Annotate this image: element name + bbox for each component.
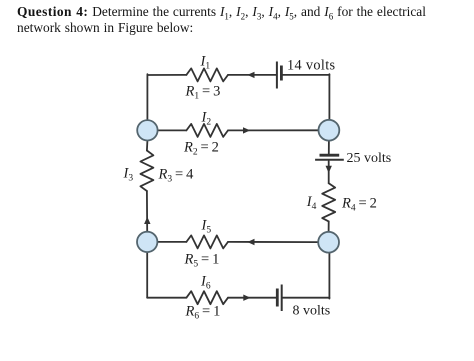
current arrow I1 (left) bbox=[247, 72, 254, 78]
svg-text:R6 = 1: R6 = 1 bbox=[185, 304, 221, 322]
wire left rail top bbox=[146, 74, 148, 120]
svg-text:14 volts: 14 volts bbox=[287, 57, 336, 73]
resistor R5 bbox=[186, 235, 228, 248]
current arrow I2 (right) bbox=[243, 127, 250, 133]
wire bottom middle segment bbox=[228, 297, 276, 299]
svg-text:I2: I2 bbox=[201, 109, 212, 127]
current arrow I3 (up) bbox=[144, 217, 150, 224]
wire top middle segment bbox=[228, 74, 276, 76]
battery 25 volts short plate bbox=[320, 154, 340, 157]
resistor R3 bbox=[140, 151, 153, 192]
wire left rail R3-to-node bbox=[146, 191, 148, 232]
svg-text:R4 = 2: R4 = 2 bbox=[341, 195, 377, 213]
node top-left bbox=[137, 120, 157, 140]
resistor R4 bbox=[322, 183, 335, 221]
svg-text:R5 = 1: R5 = 1 bbox=[184, 252, 220, 270]
svg-text:I6: I6 bbox=[200, 274, 211, 292]
wire row3 left segment bbox=[158, 241, 187, 243]
wire bottom left segment bbox=[147, 297, 186, 299]
wire row2 left segment bbox=[158, 129, 187, 131]
svg-text:8 volts: 8 volts bbox=[293, 304, 331, 319]
wire top right segment bbox=[282, 74, 329, 76]
svg-text:I1: I1 bbox=[200, 54, 211, 72]
battery 14 volts short plate bbox=[280, 66, 283, 81]
current arrow I6 (right) bbox=[243, 295, 250, 301]
question heading text bbox=[17, 4, 474, 36]
wire right rail R4-to-node bbox=[328, 221, 330, 232]
wire left rail bottom bbox=[146, 252, 148, 298]
wire left rail node-to-R3 bbox=[146, 141, 149, 151]
battery 8 volts long plate bbox=[281, 285, 283, 312]
wire top-left horizontal segment bbox=[147, 74, 186, 76]
wire right rail battery-to-R4 bbox=[328, 161, 330, 183]
battery 8 volts short plate bbox=[276, 289, 279, 307]
wire right rail top bbox=[328, 74, 330, 120]
node top-right bbox=[319, 120, 340, 141]
wire right rail node-to-battery bbox=[328, 141, 330, 154]
svg-text:I4: I4 bbox=[306, 194, 317, 212]
svg-text:R1 = 3: R1 = 3 bbox=[185, 83, 221, 101]
svg-text:R2 = 2: R2 = 2 bbox=[183, 139, 219, 157]
resistor R2 bbox=[186, 124, 228, 137]
wire bottom right segment bbox=[283, 297, 330, 299]
battery 14 volts long plate bbox=[276, 62, 278, 89]
battery 25 volts long plate bbox=[315, 159, 344, 161]
svg-text:25 volts: 25 volts bbox=[347, 151, 392, 166]
svg-text:I5: I5 bbox=[201, 217, 212, 235]
wire row2 right segment bbox=[228, 129, 319, 131]
node bottom-left bbox=[137, 232, 157, 252]
resistor R1 bbox=[186, 68, 228, 81]
wire row3 right segment bbox=[228, 241, 318, 243]
resistor R6 bbox=[186, 291, 228, 304]
svg-text:I3: I3 bbox=[123, 165, 134, 183]
node bottom-right bbox=[318, 232, 339, 253]
current arrow I5 (left) bbox=[247, 239, 254, 245]
wire right rail bottom bbox=[328, 253, 330, 299]
current arrow I4 (down) bbox=[326, 166, 332, 173]
svg-text:R3 = 4: R3 = 4 bbox=[158, 167, 195, 185]
